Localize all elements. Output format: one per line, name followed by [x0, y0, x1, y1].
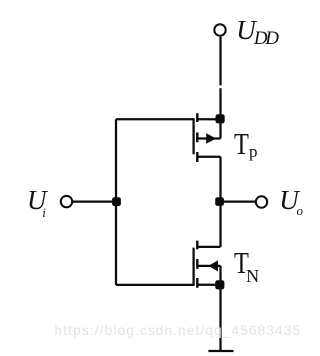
- label T_N: [234, 249, 249, 280]
- wire: Tn body lead: [198, 265, 221, 267]
- junction dot at input node: [112, 197, 121, 206]
- transistor Tp channel tick (body): [196, 132, 198, 142]
- watermark: [55, 324, 302, 338]
- power terminal U_DD circle: [214, 24, 225, 35]
- junction dot at output node: [215, 197, 224, 206]
- wire: Tn body down to source node: [219, 266, 221, 285]
- label U_DD: [236, 17, 256, 44]
- wire: Tp drain lead: [198, 156, 221, 158]
- junction dot at Tn source node: [215, 280, 224, 289]
- transistor Tn channel tick (body): [196, 259, 198, 269]
- wire: output lead: [220, 200, 256, 202]
- transistor Tp gate bar: [192, 118, 194, 154]
- wire: input lead: [73, 200, 117, 202]
- wire: gate branch to Tn: [116, 284, 194, 286]
- ground bar: [208, 350, 233, 352]
- input terminal U_i circle: [61, 196, 72, 207]
- wire: Tp body lead: [198, 137, 221, 139]
- Tn body arrow (points left): [208, 260, 218, 271]
- junction dot at Tp source / U_DD node: [216, 114, 225, 123]
- wire: U_DD stem upper segment: [219, 37, 221, 85]
- wire: Tn drain lead: [198, 246, 221, 248]
- wire: U_DD stem lower segment: [219, 88, 221, 119]
- Tp body arrow (points right): [206, 133, 216, 144]
- output terminal U_o circle: [256, 196, 267, 207]
- wire: input bus vertical: [115, 119, 117, 285]
- transistor Tp channel tick (drain): [196, 152, 198, 162]
- wire: output node down to Tn drain: [219, 202, 221, 247]
- transistor Tp channel tick (source): [196, 113, 198, 122]
- transistor Tn gate bar: [192, 248, 194, 286]
- wire: Tn source lead: [198, 284, 221, 286]
- wire: gate branch to Tp: [116, 118, 194, 120]
- wire: Tp source lead: [198, 118, 221, 120]
- transistor Tn channel tick (source): [196, 278, 198, 288]
- label U_o: [279, 187, 299, 214]
- wire: node to Tp body lead: [219, 119, 221, 139]
- wire: source down to ground: [219, 285, 221, 352]
- label T_p: [234, 130, 249, 161]
- wire: Tp drain down to output node: [219, 157, 221, 202]
- transistor Tn channel tick (drain): [196, 241, 198, 250]
- label U_i: [27, 187, 47, 214]
